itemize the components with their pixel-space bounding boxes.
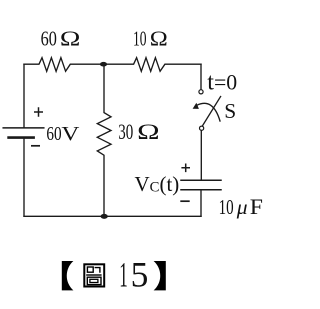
svg-text:S: S xyxy=(224,99,236,123)
svg-text:Ω: Ω xyxy=(60,27,81,51)
svg-text:10: 10 xyxy=(219,195,234,219)
svg-text:60: 60 xyxy=(46,123,61,145)
svg-text:F: F xyxy=(250,194,263,219)
svg-text:μ: μ xyxy=(236,195,248,219)
svg-text:VC(t): VC(t) xyxy=(135,172,180,196)
svg-text:Ω: Ω xyxy=(150,27,168,51)
svg-text:Ω: Ω xyxy=(137,119,160,144)
svg-text:10: 10 xyxy=(133,27,147,51)
svg-text:5: 5 xyxy=(131,255,149,295)
svg-text:V: V xyxy=(61,123,79,145)
svg-text:60: 60 xyxy=(41,27,57,51)
svg-text:1: 1 xyxy=(119,255,128,295)
svg-text:t=0: t=0 xyxy=(207,70,237,96)
svg-text:30: 30 xyxy=(118,119,133,144)
